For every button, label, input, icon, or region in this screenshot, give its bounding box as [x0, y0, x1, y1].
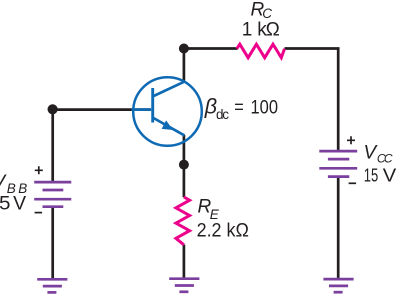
svg-text:15: 15 — [364, 166, 379, 186]
svg-text:V: V — [13, 194, 26, 215]
wire RC to top-right corner down to VCC battery — [285, 47, 339, 151]
svg-text:C: C — [384, 152, 393, 166]
svg-text:=: = — [234, 97, 244, 118]
plus sign VCC — [347, 136, 355, 144]
svg-text:V: V — [383, 165, 397, 186]
wire left vertical VBB bottom to ground — [51, 207, 54, 279]
transistor Q1 circle — [133, 77, 202, 146]
svg-text:E: E — [210, 207, 220, 222]
node collector junction dot — [179, 44, 189, 54]
resistor RC zigzag — [237, 44, 285, 58]
resistor RE zigzag — [176, 197, 190, 245]
minus sign VBB — [35, 212, 43, 214]
minus sign VCC — [349, 182, 357, 184]
svg-text:5: 5 — [0, 194, 11, 215]
node base junction dot — [48, 104, 58, 114]
battery VBB plates — [34, 182, 71, 207]
wire VCC bottom to ground — [337, 177, 340, 279]
wire top from collector node to RC — [184, 47, 238, 50]
transistor Q1 base lead — [132, 108, 152, 111]
svg-text:2.2 kΩ: 2.2 kΩ — [197, 221, 249, 242]
battery VCC plates — [319, 151, 357, 177]
svg-text:100: 100 — [251, 97, 279, 119]
ground right — [323, 279, 353, 292]
transistor Q1 emitter arrowhead — [162, 120, 174, 130]
ground left — [37, 279, 67, 292]
plus sign VBB — [35, 166, 43, 174]
wire left vertical VBB top — [51, 108, 54, 182]
ground middle — [169, 279, 199, 292]
transistor Q1 base bar — [151, 88, 154, 123]
wire base horizontal — [53, 108, 151, 111]
wire RE bottom to ground — [183, 245, 186, 279]
wire collector vertical — [183, 47, 186, 82]
svg-text:kΩ: kΩ — [257, 20, 280, 41]
transistor Q1 emitter lead — [153, 118, 185, 136]
transistor Q1 collector lead — [153, 82, 184, 97]
svg-text:1: 1 — [242, 20, 253, 41]
node emitter junction dot — [179, 160, 189, 170]
svg-text:dc: dc — [216, 107, 229, 122]
wire emitter vertical to RE — [183, 135, 186, 197]
